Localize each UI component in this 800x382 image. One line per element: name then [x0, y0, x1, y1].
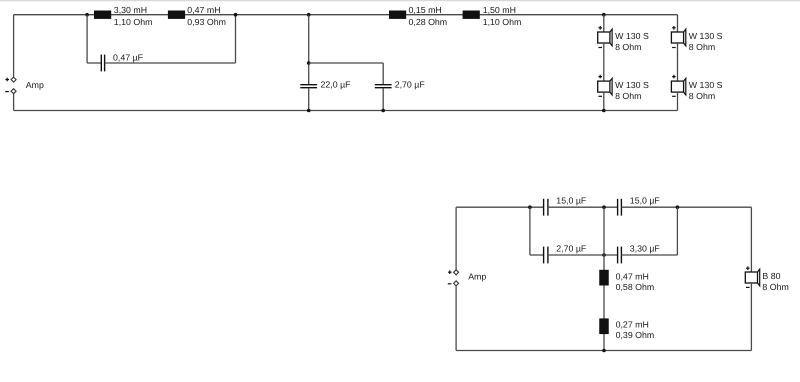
node shunt2 bottom junction [381, 109, 385, 113]
svg-text:0,47 µF: 0,47 µF [113, 52, 144, 62]
wire amp2 plus to top rail [455, 207, 457, 269]
speaker LS2 minus [598, 95, 602, 97]
speaker LS2 plus [598, 75, 602, 79]
svg-text:1,10 Ohm: 1,10 Ohm [114, 17, 153, 27]
speaker LS4 W 130 S [671, 78, 685, 95]
label LS3 [689, 31, 723, 52]
inductor 0.47 mH vertical [599, 270, 609, 286]
label L6 values [616, 320, 655, 341]
speaker LS1 W 130 S [598, 29, 612, 46]
capacitor 3.30 uF lower [618, 247, 622, 264]
node middle bottom junction [602, 349, 606, 353]
node C junction top [307, 13, 311, 17]
wire row2 segment b [548, 254, 618, 256]
svg-text:2,70 µF: 2,70 µF [556, 243, 587, 253]
speaker LS1 plus [598, 26, 602, 30]
svg-text:2,70 µF: 2,70 µF [395, 79, 426, 89]
wire bypass branch left drop [86, 15, 88, 63]
wire bottom rail [14, 110, 678, 112]
svg-text:15,0 µF: 15,0 µF [556, 196, 587, 206]
node M junction top [602, 205, 606, 209]
speaker LS3 plus [672, 26, 676, 30]
label L5 values [616, 271, 655, 292]
speaker LS1 minus [598, 47, 602, 49]
svg-text:1,50 mH: 1,50 mH [483, 5, 516, 15]
window top border [0, 0, 800, 1]
wire amp2 minus to bottom rail [455, 286, 457, 350]
svg-text:8 Ohm: 8 Ohm [762, 282, 788, 292]
svg-text:W 130 S: W 130 S [615, 31, 649, 41]
speaker LS2 W 130 S [598, 78, 612, 95]
svg-text:0,58 Ohm: 0,58 Ohm [616, 282, 655, 292]
speaker LS5 plus [746, 266, 750, 270]
wire col1 top segment [603, 15, 605, 32]
label LS4 [689, 80, 723, 101]
inductor 1.50 mH [463, 11, 480, 19]
wire top rail 2 segment a [456, 206, 543, 208]
wire middle column [603, 207, 605, 350]
speaker LS4 minus [672, 95, 676, 97]
svg-text:22,0 µF: 22,0 µF [321, 79, 352, 89]
label L4 values [483, 5, 522, 27]
label LS2 [615, 80, 649, 101]
wire bypass branch left horizontal [87, 62, 101, 64]
amp2 terminal minus [454, 281, 459, 286]
speaker LS4 plus [672, 75, 676, 79]
svg-text:0,39 Ohm: 0,39 Ohm [616, 330, 655, 340]
wire row2 segment c [621, 254, 677, 256]
svg-text:Amp: Amp [468, 271, 486, 281]
wire col2 bottom segment [677, 92, 679, 110]
wire row2 left drop [529, 207, 531, 255]
wire shunt1 upper [308, 15, 310, 84]
amp2 plus sign [448, 270, 452, 274]
node shunt1 bottom junction [307, 109, 311, 113]
wire col1 middle segment [603, 43, 605, 81]
amp1 terminal minus [11, 89, 16, 94]
wire col2 top segment [677, 15, 679, 32]
capacitor 15.0 uF first [544, 199, 548, 216]
wire amp1 plus to top rail [13, 15, 15, 77]
amp2 terminal plus [454, 270, 459, 275]
wire col2 middle segment [677, 43, 679, 81]
inductor 0.47 mH [168, 11, 185, 19]
label L1 values [114, 5, 153, 27]
node J1 junction [528, 205, 532, 209]
svg-text:0,47 mH: 0,47 mH [187, 5, 220, 15]
wire shunt2 horizontal [309, 62, 384, 64]
wire row2 right rise [676, 207, 678, 255]
node C2 junction mid [307, 61, 311, 65]
amp1 minus sign [5, 91, 9, 93]
amp2 minus sign [448, 283, 452, 285]
inductor 3.30 mH [94, 11, 111, 19]
svg-text:W 130 S: W 130 S [615, 80, 649, 90]
svg-text:0,15 mH: 0,15 mH [409, 5, 442, 15]
speaker LS5 minus [746, 286, 750, 288]
capacitor 2.70 uF [375, 85, 392, 88]
wire col1 bottom segment [603, 92, 605, 110]
wire shunt2 upper [382, 63, 384, 84]
svg-text:0,47 mH: 0,47 mH [616, 271, 649, 281]
svg-text:W 130 S: W 130 S [689, 80, 723, 90]
node D junction bottom [602, 109, 606, 113]
svg-text:0,28 Ohm: 0,28 Ohm [409, 17, 448, 27]
label L2 values [187, 5, 226, 27]
capacitor 2.70 uF lower [544, 247, 548, 264]
wire shunt1 lower [308, 88, 310, 110]
label L3 values [409, 5, 448, 27]
wire row2 segment a [530, 254, 544, 256]
node M junction mid [602, 253, 606, 257]
capacitor 22.0 uF [300, 85, 317, 88]
svg-text:15,0 µF: 15,0 µF [630, 196, 661, 206]
wire top rail 2 segment c [621, 206, 751, 208]
node D junction top [602, 13, 606, 17]
wire bypass branch right horizontal [105, 62, 236, 64]
wire speaker to bottom rail 2 [750, 283, 752, 351]
wire bottom rail 2 [456, 350, 751, 352]
svg-text:B 80: B 80 [762, 271, 780, 281]
wire right drop to speaker [750, 207, 752, 272]
label LS1 [615, 31, 649, 52]
wire shunt2 lower [382, 88, 384, 110]
speaker LS3 minus [672, 47, 676, 49]
label LS5 [762, 271, 788, 292]
speaker LS5 B 80 [745, 269, 759, 286]
speaker LS3 W 130 S [671, 29, 685, 46]
node J2 junction [676, 205, 680, 209]
capacitor 15.0 uF second [618, 199, 622, 216]
svg-text:8 Ohm: 8 Ohm [615, 91, 641, 101]
wire bypass branch right rise [235, 15, 237, 63]
svg-text:3,30 mH: 3,30 mH [114, 5, 147, 15]
wire top rail 2 segment b [548, 206, 618, 208]
capacitor 0.47 uF [101, 55, 104, 72]
svg-text:8 Ohm: 8 Ohm [689, 91, 715, 101]
svg-text:3,30 µF: 3,30 µF [630, 243, 661, 253]
svg-text:8 Ohm: 8 Ohm [615, 42, 641, 52]
svg-text:1,10 Ohm: 1,10 Ohm [483, 17, 522, 27]
inductor 0.27 mH vertical [599, 318, 609, 334]
amp1 plus sign [5, 78, 9, 82]
svg-text:W 130 S: W 130 S [689, 31, 723, 41]
wire top rail [14, 14, 678, 16]
inductor 0.15 mH [389, 11, 406, 19]
amp1 terminal plus [11, 77, 16, 82]
svg-text:0,27 mH: 0,27 mH [616, 320, 649, 330]
node B junction [234, 13, 238, 17]
node A junction [85, 13, 89, 17]
wire amp1 minus to bottom rail [13, 94, 15, 111]
svg-text:Amp: Amp [26, 80, 44, 90]
svg-text:8 Ohm: 8 Ohm [689, 42, 715, 52]
svg-text:0,93 Ohm: 0,93 Ohm [187, 17, 226, 27]
